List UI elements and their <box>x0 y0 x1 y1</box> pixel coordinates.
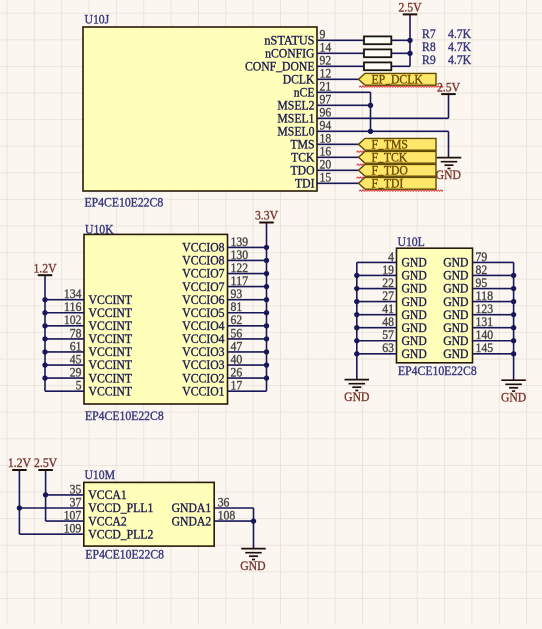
U10L pin 79 GND right <box>443 249 513 270</box>
wire DCLK pin 12 to port EP_DCLK <box>317 78 359 80</box>
wire U10L pin 145 to right GND bus <box>473 353 514 355</box>
U10K pin 61 VCCINT <box>45 338 132 359</box>
wire U10K pin 81 to 3.3V bus <box>228 312 267 314</box>
wire U10L right GND bus vertical <box>513 262 515 380</box>
junction 1.2V at VCCD_PLL1 <box>17 505 22 510</box>
wire U10L pin 27 to left GND bus <box>357 301 397 303</box>
U10L pin 57 GND left <box>357 327 427 348</box>
svg-text:4.7K: 4.7K <box>448 52 472 67</box>
U10K pin 139 VCCIO8 <box>182 234 266 255</box>
U10J pin 15 TDI <box>295 170 331 191</box>
wire U10L pin 22 to left GND bus <box>357 288 397 290</box>
compile marker at F_TCK tip <box>357 164 369 165</box>
wire 2.5V vertical bus <box>409 14 411 66</box>
wire GNDA1 pin 36 to GND bus <box>214 507 253 509</box>
U10K pin 122 VCCIO7 <box>182 260 266 281</box>
svg-text:EP4CE10E22C8: EP4CE10E22C8 <box>398 363 477 378</box>
junction right GND bus <box>511 351 516 356</box>
wire U10L pin 19 to left GND bus <box>357 274 397 276</box>
svg-text:2.5V: 2.5V <box>437 79 461 94</box>
wire VCCD_PLL2 pin 109 <box>19 533 83 535</box>
wire TCK pin 16 to port F_TCK <box>317 156 359 158</box>
junction 3.3V bus <box>264 245 269 250</box>
wire TDO pin 20 to port F_TDO <box>317 169 359 171</box>
wire U10K pin 40 to 3.3V bus <box>228 364 267 366</box>
junction 2.5V at VCCA1 <box>43 492 48 497</box>
U10L pin 63 GND left <box>357 340 427 361</box>
wire nCE pin 21 <box>317 91 371 93</box>
U10K pin 134 VCCINT <box>45 286 132 307</box>
svg-text:EP4CE10E22C8: EP4CE10E22C8 <box>85 408 164 423</box>
wire U10K pin 116 to 1.2V bus <box>45 312 84 314</box>
U10M pin 37 VCCD_PLL1 <box>70 494 154 515</box>
resistor R9 4.7K <box>364 52 472 70</box>
power symbol 2.5V no.2 <box>437 79 461 94</box>
svg-text:GNDA2: GNDA2 <box>172 513 212 528</box>
svg-text:U10M: U10M <box>85 467 116 482</box>
junction left GND bus <box>354 299 359 304</box>
wire U10K pin 47 to 3.3V bus <box>228 351 267 353</box>
power symbol 2.5V no.3 <box>34 455 58 470</box>
svg-text:15: 15 <box>320 170 332 185</box>
port F_TDO <box>359 162 437 177</box>
junction 3.3V bus <box>264 271 269 276</box>
svg-text:R9: R9 <box>422 52 436 67</box>
U10K pin 130 VCCIO8 <box>182 247 266 268</box>
wire U10L pin 4 to left GND bus <box>357 261 397 263</box>
svg-text:TDI: TDI <box>295 176 315 191</box>
ground symbol GND no.2 <box>344 380 369 405</box>
svg-text:63: 63 <box>382 340 394 355</box>
wire U10L pin 140 to right GND bus <box>473 340 514 342</box>
power symbol 2.5V no.1 <box>398 0 422 15</box>
wire U10K pin 93 to 3.3V bus <box>228 299 267 301</box>
wire U10L pin 63 to left GND bus <box>357 353 397 355</box>
U10J pin 92 CONF_DONE <box>245 53 331 74</box>
svg-text:1.2V: 1.2V <box>33 260 57 275</box>
svg-text:TDI: TDI <box>384 175 404 190</box>
U10K pin 116 VCCINT <box>45 299 132 320</box>
compile marker at F_TDO tip <box>357 177 369 178</box>
junction 3.3V bus <box>264 297 269 302</box>
wire U10K pin 102 to 1.2V bus <box>45 325 84 327</box>
junction 1.2V bus <box>42 310 47 315</box>
junction 1.2V bus <box>42 349 47 354</box>
U10K pin 81 VCCIO5 <box>182 299 266 320</box>
svg-text:GND: GND <box>436 167 461 182</box>
U10L pin 131 GND right <box>443 314 513 335</box>
U10L pin 19 GND left <box>357 262 427 283</box>
svg-text:2.5V: 2.5V <box>34 455 58 470</box>
svg-text:F: F <box>372 175 379 190</box>
junction right GND bus <box>511 312 516 317</box>
U10J pin 21 nCE <box>294 79 332 100</box>
U10M pin 109 VCCD_PLL2 <box>64 521 154 542</box>
junction 1.2V bus <box>42 362 47 367</box>
U10K pin 93 VCCIO6 <box>182 286 266 307</box>
junction left GND bus <box>354 273 359 278</box>
svg-text:VCCD_PLL2: VCCD_PLL2 <box>88 526 153 541</box>
junction left GND bus <box>354 312 359 317</box>
junction 3.3V bus <box>264 336 269 341</box>
wire U10L pin 118 to right GND bus <box>473 301 514 303</box>
wire U10K pin 29 to 1.2V bus <box>45 377 84 379</box>
junction right GND bus <box>511 273 516 278</box>
power symbol 3.3V <box>255 208 279 223</box>
IC U10K EP4CE10E22C8 body <box>84 222 228 423</box>
U10L pin 95 GND right <box>443 275 513 296</box>
junction 3.3V bus <box>264 310 269 315</box>
wire U10L pin 41 to left GND bus <box>357 314 397 316</box>
wire TDI pin 15 to port F_TDI <box>317 182 359 184</box>
wire U10L pin 131 to right GND bus <box>473 327 514 329</box>
U10L pin 118 GND right <box>443 288 513 309</box>
port F_TDI <box>359 175 437 190</box>
junction left GND bus <box>354 338 359 343</box>
U10L pin 48 GND left <box>357 314 427 335</box>
wire MSEL1 vertical to 2.5V <box>448 94 450 118</box>
wire U10L pin 48 to left GND bus <box>357 327 397 329</box>
junction MSEL0 <box>368 129 373 134</box>
port EP_DCLK <box>359 71 437 86</box>
U10L pin 123 GND right <box>443 301 513 322</box>
junction left GND bus <box>354 286 359 291</box>
IC U10J EP4CE10E22C8 body <box>83 11 317 209</box>
svg-text:1.2V: 1.2V <box>8 455 32 470</box>
U10J pin 9 nSTATUS <box>264 27 325 48</box>
wire R7 to 2.5V bus <box>391 39 410 41</box>
wire U10K pin 117 to 3.3V bus <box>228 286 267 288</box>
U10K pin 45 VCCINT <box>45 351 132 372</box>
U10K pin 5 VCCINT <box>45 378 132 399</box>
U10J pin 12 DCLK <box>283 66 332 87</box>
wire U10K pin 17 to 3.3V bus <box>228 390 267 392</box>
wire VCCA1 pin 35 to 2.5V bus <box>46 494 84 496</box>
svg-text:DCLK: DCLK <box>391 71 423 86</box>
U10K pin 40 VCCIO3 <box>182 351 266 372</box>
svg-text:EP4CE10E22C8: EP4CE10E22C8 <box>85 547 164 562</box>
wire U10K pin 5 to 1.2V bus <box>45 390 84 392</box>
U10L pin 145 GND right <box>443 340 513 361</box>
compile marker under EP_DCLK <box>359 86 443 87</box>
wire VCCD_PLL1 pin 37 to 1.2V bus <box>19 507 83 509</box>
wire U10L pin 82 to right GND bus <box>473 274 514 276</box>
junction right GND bus <box>511 325 516 330</box>
wire MSEL0 vertical to GND <box>448 131 450 157</box>
wire 2.5V bus vertical U10M <box>45 470 47 521</box>
wire U10L pin 123 to right GND bus <box>473 314 514 316</box>
svg-text:VCCIO1: VCCIO1 <box>182 383 224 398</box>
wire TMS pin 18 to port F_TMS <box>317 143 359 145</box>
junction MSEL2 <box>368 103 373 108</box>
U10J pin 20 TDO <box>291 157 332 178</box>
svg-text:GND: GND <box>443 346 468 361</box>
resistor R8 4.7K <box>364 39 472 57</box>
junction 3.3V bus <box>264 375 269 380</box>
svg-text:EP4CE10E22C8: EP4CE10E22C8 <box>85 195 164 210</box>
U10L pin 4 GND left <box>357 249 427 270</box>
wire U10K pin 45 to 1.2V bus <box>45 364 84 366</box>
junction left GND bus <box>354 325 359 330</box>
junction 3.3V bus <box>264 362 269 367</box>
junction 1.2V bus <box>42 297 47 302</box>
U10K pin 47 VCCIO3 <box>182 338 266 359</box>
svg-text:3.3V: 3.3V <box>255 208 279 223</box>
wire U10L pin 79 to right GND bus <box>473 261 514 263</box>
wire U10K pin 56 to 3.3V bus <box>228 338 267 340</box>
U10K pin 17 VCCIO1 <box>182 378 266 399</box>
svg-text:109: 109 <box>64 521 82 536</box>
wire 1.2V bus vertical U10M <box>18 470 20 534</box>
U10M pin 35 VCCA1 <box>70 481 127 502</box>
wire U10L pin 57 to left GND bus <box>357 340 397 342</box>
wire U10K pin 78 to 1.2V bus <box>45 338 84 340</box>
power symbol 1.2V no.2 <box>8 455 32 470</box>
wire U10J pin 9 to R7 <box>317 39 364 41</box>
wire nCE to MSEL0 vertical <box>370 92 372 131</box>
junction 3.3V bus <box>264 284 269 289</box>
U10J pin 16 TCK <box>291 144 332 165</box>
U10K pin 29 VCCINT <box>45 365 132 386</box>
junction on 2.5V bus at R7 <box>407 38 412 43</box>
ground symbol GND no.4 <box>240 549 266 574</box>
U10L pin 27 GND left <box>357 288 427 309</box>
compile marker under F_TDI <box>359 190 443 191</box>
svg-text:U10J: U10J <box>85 11 110 26</box>
svg-text:5: 5 <box>76 378 82 393</box>
junction 3.3V bus <box>264 258 269 263</box>
svg-text:U10L: U10L <box>398 234 425 249</box>
junction 1.2V bus <box>42 323 47 328</box>
U10J pin 14 nCONFIG <box>265 40 332 61</box>
wire U10K pin 139 to 3.3V bus <box>228 246 267 248</box>
junction right GND bus <box>511 286 516 291</box>
wire R9 to 2.5V bus <box>391 65 410 67</box>
wire U10L pin 95 to right GND bus <box>473 288 514 290</box>
wire U10K pin 122 to 3.3V bus <box>228 273 267 275</box>
port F_TMS <box>359 136 437 151</box>
svg-text:2.5V: 2.5V <box>398 0 422 15</box>
wire 3.3V bus vertical <box>266 223 268 392</box>
U10K pin 117 VCCIO7 <box>182 273 266 294</box>
svg-text:108: 108 <box>218 508 236 523</box>
junction GNDA2 <box>251 518 256 523</box>
U10J pin 96 MSEL1 <box>277 105 331 126</box>
U10K pin 62 VCCIO4 <box>182 312 266 333</box>
U10M pin 36 GNDA1 <box>172 494 230 515</box>
ground symbol GND no.1 <box>436 158 462 183</box>
IC U10M EP4CE10E22C8 body <box>84 467 214 562</box>
svg-text:VCCINT: VCCINT <box>89 383 133 398</box>
junction 3.3V bus <box>264 323 269 328</box>
wire U10K pin 62 to 3.3V bus <box>228 325 267 327</box>
junction right GND bus <box>511 338 516 343</box>
junction on 2.5V bus at R8 <box>407 51 412 56</box>
wire VCCA2 pin 107 <box>46 520 84 522</box>
svg-text:GND: GND <box>240 558 265 573</box>
U10K pin 78 VCCINT <box>45 325 132 346</box>
U10K pin 26 VCCIO2 <box>182 365 266 386</box>
svg-text:17: 17 <box>231 378 243 393</box>
U10L pin 22 GND left <box>357 275 427 296</box>
U10J pin 97 MSEL2 <box>277 92 331 113</box>
wire U10L left GND bus vertical <box>356 262 358 379</box>
junction right GND bus <box>511 299 516 304</box>
U10J pin 18 TMS <box>290 131 331 152</box>
wire MSEL0 pin 94 to GND <box>317 130 449 132</box>
U10L pin 41 GND left <box>357 301 427 322</box>
U10M pin 107 VCCA2 <box>64 508 127 529</box>
U10L pin 140 GND right <box>443 327 513 348</box>
svg-text:U10K: U10K <box>85 222 114 237</box>
junction left GND bus <box>354 351 359 356</box>
wire MSEL2 pin 97 <box>317 104 371 106</box>
wire U10J pin 14 to R8 <box>317 52 364 54</box>
wire U10K pin 130 to 3.3V bus <box>228 259 267 261</box>
svg-text:GND: GND <box>501 390 526 405</box>
U10J pin 94 MSEL0 <box>277 118 331 139</box>
wire 1.2V bus vertical <box>44 275 46 391</box>
ground symbol GND no.3 <box>501 380 526 405</box>
U10M pin 108 GNDA2 <box>172 508 236 529</box>
svg-text:EP: EP <box>372 71 386 86</box>
IC U10L EP4CE10E22C8 body <box>397 234 477 378</box>
wire R8 to 2.5V bus <box>391 52 410 54</box>
junction 1.2V bus <box>42 336 47 341</box>
port F_TCK <box>359 149 437 164</box>
svg-text:GND: GND <box>344 389 369 404</box>
U10K pin 56 VCCIO4 <box>182 325 266 346</box>
wire GNDA2 pin 108 to GND bus <box>214 520 253 522</box>
U10K pin 102 VCCINT <box>45 312 132 333</box>
U10L pin 82 GND right <box>443 262 513 283</box>
junction 3.3V bus <box>264 349 269 354</box>
power symbol 1.2V no.1 <box>33 260 57 275</box>
svg-text:145: 145 <box>476 340 494 355</box>
resistor R7 4.7K <box>364 26 472 44</box>
wire MSEL1 pin 96 to 2.5V <box>317 117 449 119</box>
svg-text:GND: GND <box>402 346 427 361</box>
wire U10K pin 61 to 1.2V bus <box>45 351 84 353</box>
compile marker at F_TMS tip <box>357 151 369 152</box>
junction 1.2V bus <box>42 375 47 380</box>
wire U10K pin 26 to 3.3V bus <box>228 377 267 379</box>
wire U10J pin 92 to R9 <box>317 65 364 67</box>
wire U10K pin 134 to 1.2V bus <box>45 299 84 301</box>
wire U10M GND bus vertical <box>253 508 255 549</box>
